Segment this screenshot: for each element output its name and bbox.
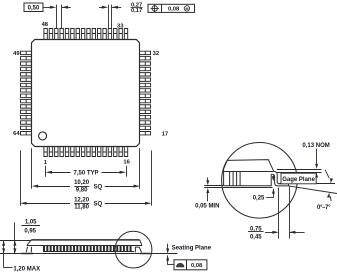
package body outline (top view) bbox=[32, 40, 140, 147]
svg-text:16: 16 bbox=[123, 160, 130, 166]
right lead of side view bbox=[135, 247, 141, 252]
svg-text:7,50 TYP: 7,50 TYP bbox=[73, 170, 98, 176]
svg-text:M: M bbox=[185, 7, 188, 11]
top pins 48..33 bbox=[44, 29, 128, 40]
svg-text:0,17: 0,17 bbox=[131, 8, 142, 14]
side view body top bbox=[31, 239, 140, 241]
bottom pins 1..16 bbox=[44, 147, 128, 157]
left lead foot bbox=[21, 253, 33, 255]
circled M modifier bbox=[184, 6, 189, 11]
right lead foot bbox=[140, 253, 150, 255]
dim 0,05 MIN bbox=[204, 185, 223, 187]
dimension 0,50 pitch box bbox=[24, 3, 43, 12]
svg-text:Gage Plane: Gage Plane bbox=[282, 177, 315, 183]
svg-text:11,80: 11,80 bbox=[74, 205, 89, 211]
feature control frame: position 0,08 M bbox=[148, 4, 195, 12]
dim 0,25 bbox=[273, 175, 275, 177]
svg-text:33: 33 bbox=[117, 23, 124, 29]
detail leads in profile bbox=[230, 171, 241, 185]
svg-text:64: 64 bbox=[13, 131, 20, 137]
extension lines for 0,50 bbox=[56, 5, 58, 29]
svg-text:0,95: 0,95 bbox=[24, 229, 36, 235]
0,27/0,17 arrows bbox=[99, 7, 103, 9]
seating plane arrows bbox=[167, 244, 169, 249]
detail locator circle on side view bbox=[115, 231, 152, 268]
extension lines for lead width 0,27/0,17 bbox=[108, 5, 110, 29]
right pins 32..17 bbox=[140, 51, 151, 135]
detail body shoulder line bbox=[224, 171, 274, 173]
svg-text:0,50: 0,50 bbox=[28, 6, 40, 12]
position symbol bbox=[152, 6, 157, 11]
detail body outline bbox=[224, 160, 274, 186]
svg-text:SQ: SQ bbox=[93, 184, 102, 190]
left lead of side view bbox=[26, 247, 31, 253]
svg-text:0°–7°: 0°–7° bbox=[317, 205, 331, 211]
detail lead outline bbox=[274, 171, 289, 183]
comb feet line bbox=[43, 251, 134, 253]
seating plane line bbox=[0, 253, 178, 255]
svg-text:49: 49 bbox=[13, 51, 20, 57]
side view body ends bbox=[27, 240, 142, 246]
svg-text:48: 48 bbox=[42, 22, 49, 28]
svg-text:0,25: 0,25 bbox=[253, 196, 265, 202]
svg-text:32: 32 bbox=[153, 51, 159, 57]
pin 1 index circle bbox=[39, 132, 47, 140]
dim 0,75 / 0,45 foot length bbox=[278, 188, 280, 239]
phantom unbent lead lines bbox=[277, 169, 322, 171]
gage plane line bbox=[279, 183, 335, 185]
svg-text:0,45: 0,45 bbox=[250, 235, 262, 241]
dim 1,05 / 0,95 bbox=[14, 223, 16, 254]
svg-text:17: 17 bbox=[162, 132, 168, 138]
svg-text:Seating Plane: Seating Plane bbox=[172, 246, 212, 252]
svg-text:0,08: 0,08 bbox=[168, 7, 180, 13]
flatness symbol bbox=[177, 263, 184, 266]
svg-text:1,20 MAX: 1,20 MAX bbox=[13, 266, 40, 272]
flatness feature frame bbox=[174, 260, 207, 270]
svg-text:1,05: 1,05 bbox=[25, 220, 37, 226]
svg-text:0,05 MIN: 0,05 MIN bbox=[195, 204, 219, 210]
dim 1,20 MAX bbox=[0, 240, 31, 242]
svg-text:9,80: 9,80 bbox=[76, 188, 88, 194]
side view lead comb bbox=[44, 246, 131, 252]
svg-text:SQ: SQ bbox=[93, 202, 102, 208]
svg-text:10,20: 10,20 bbox=[74, 180, 90, 186]
seating plane sloped line (0-7 deg) bbox=[289, 186, 337, 194]
svg-text:0,08: 0,08 bbox=[191, 263, 203, 269]
dim 12,20 / 11,80 SQ bbox=[20, 151, 22, 206]
dim 0 to 7 degrees bbox=[325, 170, 329, 178]
dim 10,20 / 9,80 SQ bbox=[31, 148, 33, 189]
svg-text:0,13 NOM: 0,13 NOM bbox=[302, 143, 329, 149]
detail lead foot tip bbox=[288, 184, 290, 186]
left pins 49..64 bbox=[21, 51, 32, 135]
0,50 arrows bbox=[44, 7, 51, 9]
detail circle bbox=[222, 143, 298, 219]
side view body bottom line bbox=[27, 245, 142, 247]
svg-text:12,20: 12,20 bbox=[74, 197, 90, 203]
dim 7,50 TYP bbox=[45, 166, 47, 177]
Gage Plane label box bbox=[281, 173, 316, 184]
